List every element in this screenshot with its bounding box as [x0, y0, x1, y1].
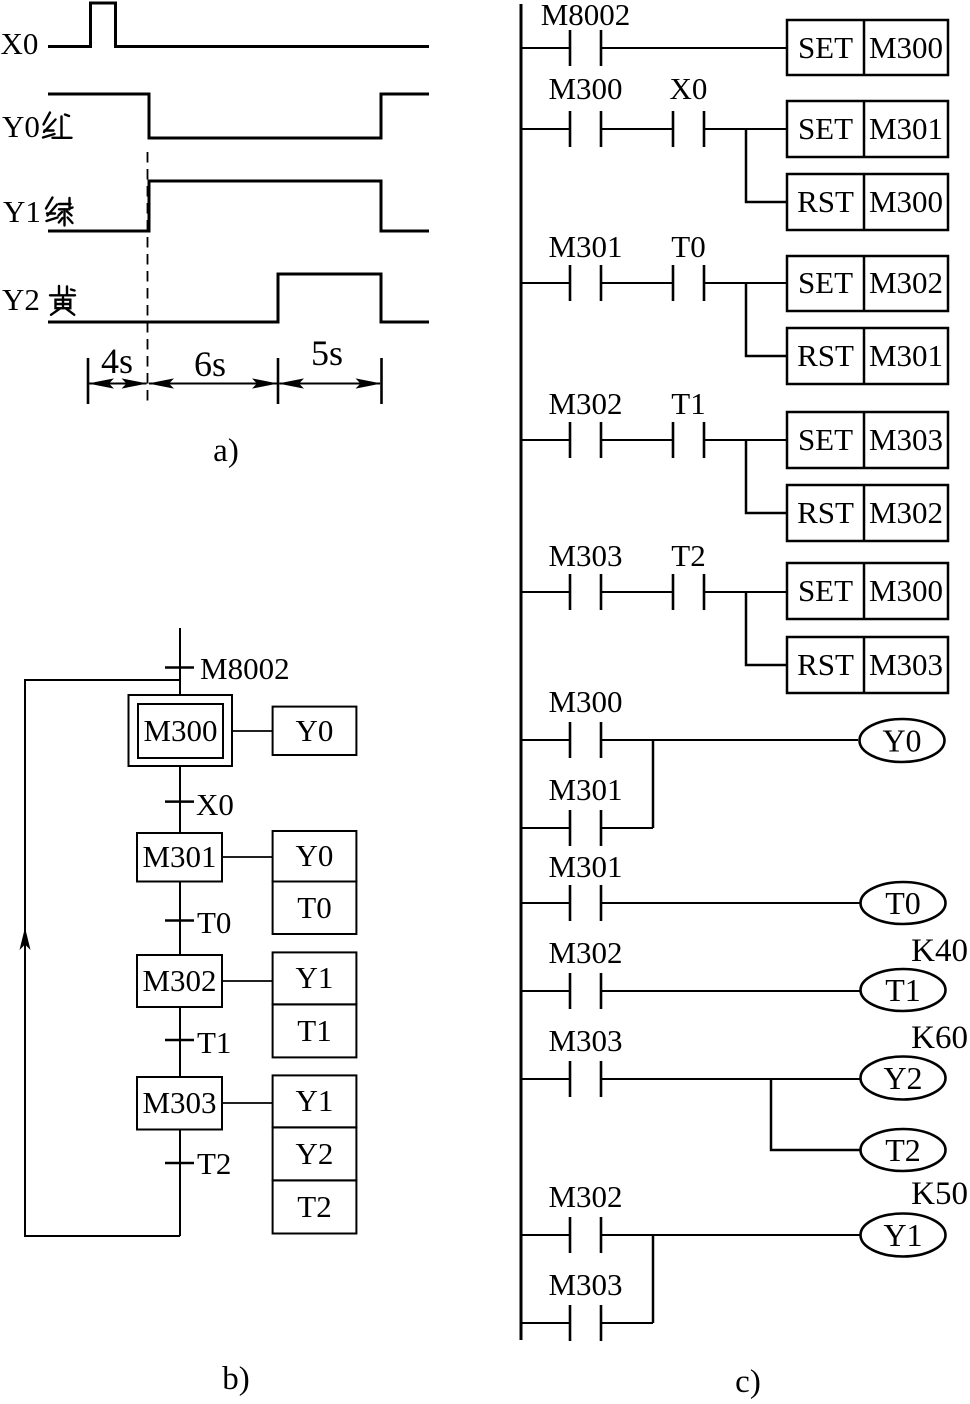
svg-text:T1: T1: [885, 972, 921, 1008]
svg-text:M303: M303: [869, 647, 943, 682]
wire M303 to actions: [222, 1102, 273, 1104]
contact X0: [673, 111, 704, 147]
time axis ticks: [88, 358, 382, 404]
svg-text:X0: X0: [196, 787, 234, 822]
svg-text:M303: M303: [869, 422, 943, 457]
svg-text:K50: K50: [911, 1176, 968, 1212]
svg-text:T1: T1: [197, 1025, 231, 1060]
contact M303 (rung9): [570, 1061, 601, 1097]
svg-text:b): b): [222, 1361, 250, 1397]
contact T1: [673, 422, 704, 458]
hanzi hong (red): [43, 113, 72, 138]
svg-text:M300: M300: [548, 71, 622, 106]
svg-text:X0: X0: [1, 26, 39, 61]
svg-text:Y0: Y0: [296, 838, 334, 873]
svg-text:M300: M300: [548, 684, 622, 719]
svg-text:M302: M302: [869, 265, 943, 300]
contact M300: [570, 111, 601, 147]
dashed timeline at 4s boundary: [147, 152, 149, 405]
waveform Y0 red: [48, 94, 429, 138]
svg-text:c): c): [735, 1364, 761, 1400]
contact M301 (rung7): [570, 885, 601, 921]
svg-text:M303: M303: [548, 1023, 622, 1058]
svg-text:T2: T2: [671, 538, 705, 573]
svg-text:Y0: Y0: [296, 713, 334, 748]
coil box RST M303: [787, 637, 948, 693]
dimension arrow 4s: [88, 378, 148, 388]
wire rung6 parallel: [521, 827, 653, 829]
action box Y1: [273, 952, 357, 1004]
wire M300 to action: [232, 730, 273, 732]
waveform Y1 green: [48, 181, 429, 231]
tick t2: [277, 358, 280, 404]
svg-text:T0: T0: [671, 229, 705, 264]
coil box SET M301: [787, 101, 948, 157]
svg-text:T1: T1: [297, 1013, 331, 1048]
hanzi huang (yellow): [50, 286, 75, 315]
step M302: [137, 955, 222, 1007]
wire rung8: [521, 990, 861, 992]
svg-text:RST: RST: [797, 338, 854, 373]
transition T0: [165, 919, 194, 922]
svg-text:Y0: Y0: [882, 723, 921, 759]
left power rail: [520, 4, 523, 1340]
wire rung6: [521, 739, 858, 741]
svg-text:M300: M300: [143, 713, 217, 748]
wire M301 to actions: [222, 856, 273, 858]
svg-text:M301: M301: [548, 772, 622, 807]
transition T2: [165, 1162, 194, 1165]
svg-text:M300: M300: [869, 573, 943, 608]
wire rung5: [521, 591, 787, 593]
svg-text:SET: SET: [798, 265, 853, 300]
coil box RST M300: [787, 174, 948, 230]
step M301: [137, 833, 222, 882]
wire rung7: [521, 902, 860, 904]
svg-text:T1: T1: [671, 386, 705, 421]
action box Y0 (step M301): [273, 831, 357, 882]
svg-text:K40: K40: [911, 933, 968, 969]
svg-text:M8002: M8002: [541, 0, 631, 32]
svg-text:M302: M302: [142, 963, 216, 998]
coil T1: [861, 969, 946, 1011]
svg-text:Y0: Y0: [2, 109, 40, 144]
svg-text:T0: T0: [297, 890, 331, 925]
contact M300 (rung6): [570, 722, 601, 758]
svg-text:4s: 4s: [101, 341, 133, 381]
contact M8002: [570, 30, 601, 66]
svg-text:X0: X0: [670, 71, 708, 106]
svg-text:M301: M301: [869, 111, 943, 146]
coil T0: [861, 882, 946, 924]
svg-text:Y2: Y2: [883, 1060, 922, 1096]
SFC return wire: [25, 680, 180, 1236]
contact M302 (rung10): [570, 1217, 601, 1253]
svg-text:M301: M301: [548, 849, 622, 884]
transition T1: [165, 1039, 194, 1042]
contact T2: [673, 574, 704, 610]
coil Y1: [861, 1214, 946, 1257]
svg-text:M300: M300: [869, 184, 943, 219]
coil box RST M302: [787, 485, 948, 541]
svg-text:Y1: Y1: [883, 1217, 922, 1253]
coil box RST M301: [787, 328, 948, 384]
action box Y0: [273, 707, 357, 755]
svg-text:a): a): [213, 433, 239, 469]
contact M301 (parallel): [570, 810, 601, 846]
action box Y2: [273, 1127, 357, 1180]
svg-text:T0: T0: [885, 885, 921, 921]
svg-text:Y1: Y1: [3, 194, 41, 229]
dimension arrow 5s: [278, 378, 382, 388]
wire rung4: [521, 439, 787, 441]
coil T2: [861, 1129, 946, 1171]
svg-text:Y2: Y2: [296, 1136, 334, 1171]
svg-text:M302: M302: [548, 1179, 622, 1214]
svg-text:Y2: Y2: [2, 282, 40, 317]
wire rung1: [521, 47, 787, 49]
branch wire rung4: [746, 440, 787, 513]
svg-text:M301: M301: [548, 229, 622, 264]
action box Y1 (step M303): [273, 1075, 357, 1127]
svg-text:M303: M303: [548, 1267, 622, 1302]
coil box SET M302: [787, 256, 948, 311]
coil Y0: [860, 719, 945, 762]
svg-text:M303: M303: [142, 1085, 216, 1120]
svg-text:M301: M301: [869, 338, 943, 373]
svg-text:SET: SET: [798, 30, 853, 65]
svg-text:SET: SET: [798, 111, 853, 146]
coil box SET M303: [787, 412, 948, 468]
action box T2: [273, 1180, 357, 1233]
svg-text:6s: 6s: [194, 344, 226, 384]
contact T0: [673, 265, 704, 301]
svg-text:RST: RST: [797, 647, 854, 682]
svg-text:RST: RST: [797, 495, 854, 530]
tick t3: [380, 358, 383, 404]
contact M301: [570, 265, 601, 301]
transition X0: [165, 800, 194, 803]
svg-text:SET: SET: [798, 422, 853, 457]
svg-text:M302: M302: [548, 935, 622, 970]
coil box SET M300: [787, 20, 948, 75]
svg-text:T0: T0: [197, 905, 231, 940]
svg-text:M302: M302: [869, 495, 943, 530]
wire M302 to actions: [222, 980, 273, 982]
contact M303: [570, 574, 601, 610]
svg-text:5s: 5s: [311, 333, 343, 373]
tick t0: [87, 358, 90, 404]
wire rung9: [521, 1078, 860, 1080]
hanzi lv (green): [46, 198, 73, 226]
contact M302 (rung8): [570, 973, 601, 1009]
contact M302: [570, 422, 601, 458]
svg-text:M300: M300: [869, 30, 943, 65]
svg-text:RST: RST: [797, 184, 854, 219]
wire rung10 parallel: [521, 1322, 653, 1324]
waveform X0: [48, 3, 429, 47]
waveform Y2 yellow: [48, 274, 429, 322]
wire rung10: [521, 1234, 860, 1236]
branch wire rung2: [746, 129, 787, 202]
svg-text:Y1: Y1: [296, 960, 334, 995]
branch wire rung5: [746, 592, 787, 665]
initial step M300 (double box): [129, 695, 233, 766]
svg-text:T2: T2: [297, 1189, 331, 1224]
dimension arrow 6s: [148, 378, 278, 388]
wire rung2: [521, 128, 787, 130]
return arrow up: [20, 928, 31, 951]
coil Y2: [861, 1057, 946, 1100]
step M303: [137, 1077, 222, 1130]
SFC main vertical line: [179, 628, 181, 1236]
svg-text:K60: K60: [911, 1020, 968, 1056]
svg-text:SET: SET: [798, 573, 853, 608]
branch wire rung9: [771, 1079, 860, 1150]
svg-text:T2: T2: [197, 1146, 231, 1181]
branch wire rung10: [652, 1235, 655, 1323]
coil box SET M300 (rung5): [787, 563, 948, 619]
svg-text:M302: M302: [548, 386, 622, 421]
transition M8002: [165, 666, 194, 669]
svg-text:M303: M303: [548, 538, 622, 573]
svg-text:M8002: M8002: [200, 651, 290, 686]
action box T1: [273, 1004, 357, 1057]
branch wire rung6: [652, 740, 655, 828]
wire rung3: [521, 282, 787, 284]
action box T0: [273, 882, 357, 935]
branch wire rung3: [746, 283, 787, 356]
svg-text:T2: T2: [885, 1132, 921, 1168]
svg-text:M301: M301: [142, 839, 216, 874]
svg-text:Y1: Y1: [296, 1083, 334, 1118]
contact M303 (parallel rung10): [570, 1305, 601, 1341]
